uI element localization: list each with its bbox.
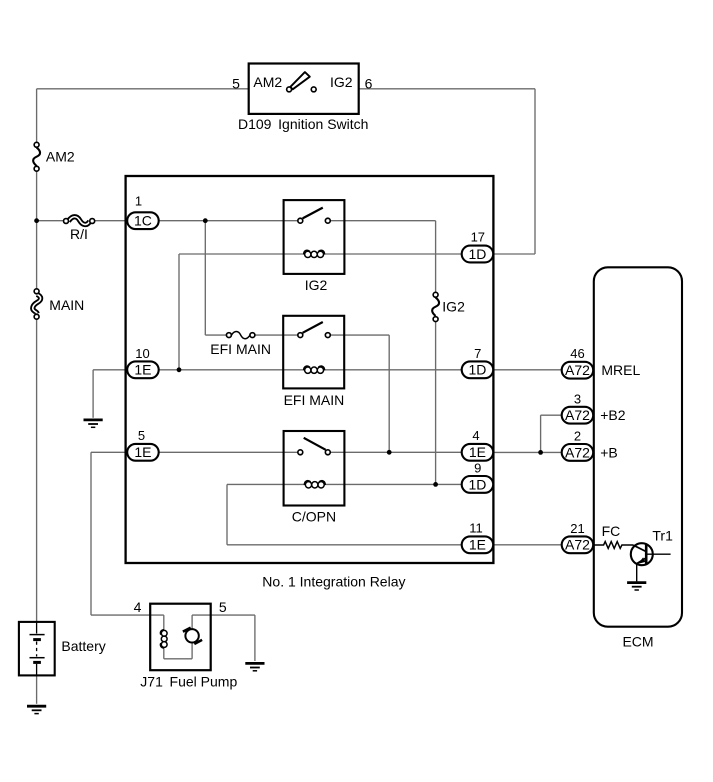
EFI MAIN relay switch (303, 322, 323, 333)
connector pin 10 (1E) (127, 361, 159, 378)
EFI MAIN relay coil (304, 366, 310, 370)
fuse AM2 (vertical) (33, 148, 40, 166)
svg-text:IG2: IG2 (305, 277, 328, 293)
switch contact AM2 (pin 5) (287, 87, 292, 92)
connector A72 pin 21 (562, 536, 594, 553)
fuse IG2 (vertical, inside relay) (432, 298, 439, 316)
fuel pump coil (160, 630, 164, 635)
svg-text:4: 4 (472, 428, 479, 443)
connector A72 pin 2 (562, 444, 594, 461)
svg-text:10: 10 (135, 346, 149, 361)
svg-text:46: 46 (570, 346, 584, 361)
svg-text:2: 2 (574, 429, 581, 444)
svg-text:AM2: AM2 (46, 149, 75, 165)
connector pin 11 (1E) (462, 536, 494, 553)
relay C/OPN box (284, 431, 345, 506)
node EFI-switch/1E junction (387, 450, 392, 455)
connector pin 17 (1D) (462, 246, 494, 263)
wire C/OPN coil left loop to pin11 1E (227, 483, 306, 485)
svg-text:C/OPN: C/OPN (292, 509, 336, 525)
connector pin 7 (1D) (462, 361, 494, 378)
svg-text:AM2: AM2 (253, 74, 282, 90)
switch lever (ignition key wedge) (290, 72, 310, 89)
wire fuel pump pin5 to ground (192, 614, 255, 616)
svg-text:+B2: +B2 (600, 407, 626, 423)
ground (pin 10 branch) (84, 418, 103, 421)
svg-text:5: 5 (138, 428, 145, 443)
wire IG2 coil run: pin17 line (179, 253, 304, 255)
switch contact IG2 (pin 6) (311, 87, 316, 92)
svg-text:7: 7 (474, 346, 481, 361)
svg-text:D109 Ignition Switch: D109 Ignition Switch (238, 116, 368, 132)
ECM box (594, 267, 682, 626)
wire C/OPN switch out to pin4 1E (330, 451, 461, 453)
wire ignition-switch IG2 to relay pin 17 (1D) (359, 88, 535, 90)
fuel pump J71 box (150, 604, 211, 671)
svg-text:IG2: IG2 (442, 299, 465, 315)
connector pin 9 (1D) (462, 476, 494, 493)
svg-text:A72: A72 (565, 444, 590, 460)
connector pin 4 (1E) (462, 444, 494, 461)
node +B/+B2 junction (538, 450, 543, 455)
C/OPN relay switch (304, 438, 326, 450)
wire pin10 1E to EFI MAIN coil to pin7 1D (159, 369, 305, 371)
svg-text:1E: 1E (469, 537, 486, 553)
svg-text:EFI MAIN: EFI MAIN (210, 341, 271, 357)
relay EFI MAIN box (283, 316, 344, 389)
svg-text:No. 1 Integration Relay: No. 1 Integration Relay (262, 573, 405, 589)
ground (battery) (27, 705, 46, 708)
svg-text:J71 Fuel Pump: J71 Fuel Pump (140, 674, 237, 690)
wire R/I fuse branch to 1C (37, 220, 64, 222)
wire pin7 1D to ECM MREL (493, 369, 562, 371)
wire C/OPN coil right to pin9 1D (324, 483, 462, 485)
IG2 relay coil (304, 250, 310, 254)
svg-text:11: 11 (469, 521, 483, 536)
svg-text:5: 5 (219, 599, 227, 615)
wire IG2 switch out to IG2 fuse vertical (330, 220, 435, 222)
svg-text:21: 21 (570, 521, 584, 536)
transistor Tr1 (631, 543, 653, 565)
battery cells (36, 622, 38, 634)
svg-text:1D: 1D (468, 362, 486, 378)
svg-text:1E: 1E (134, 444, 151, 460)
svg-text:1E: 1E (134, 362, 151, 378)
svg-text:MAIN: MAIN (49, 297, 84, 313)
svg-text:A72: A72 (565, 537, 590, 553)
svg-text:IG2: IG2 (330, 74, 353, 90)
svg-text:ECM: ECM (622, 634, 653, 650)
svg-text:5: 5 (232, 76, 240, 92)
wire pin4 1E to ECM +B / +B2 (493, 451, 562, 453)
relay box No.1 Integration Relay (126, 176, 494, 563)
wire pin5 1E branch to fuel pump (91, 451, 128, 453)
wire 1C to IG2 relay switch (159, 220, 298, 222)
svg-text:1D: 1D (468, 246, 486, 262)
fuel pump motor (185, 629, 198, 642)
node battery/R-I junction (34, 218, 39, 223)
ground (transistor emitter) (627, 581, 646, 584)
connector A72 pin 46 (562, 362, 594, 379)
ground (fuel pump) (245, 662, 264, 665)
svg-text:4: 4 (134, 599, 142, 615)
svg-text:+B: +B (600, 444, 618, 460)
wire 1C-junction down to EFI MAIN fuse (204, 221, 206, 335)
ignition switch D109 box (249, 64, 359, 114)
fusible link MAIN (vertical) (33, 294, 41, 313)
wire pin11 1E to ECM FC (493, 544, 562, 546)
wire battery negative to ground (36, 675, 38, 703)
fuse EFI MAIN (thin wavy) (231, 332, 250, 339)
svg-text:EFI MAIN: EFI MAIN (284, 392, 345, 408)
wire pin5 1E to C/OPN switch (159, 451, 298, 453)
connector pin 1 (1C) (127, 212, 159, 229)
svg-text:9: 9 (474, 460, 481, 475)
battery box (19, 622, 55, 676)
svg-text:1C: 1C (134, 213, 152, 229)
connector A72 pin 3 (562, 407, 594, 424)
wire EFI MAIN switch out down to 1E wire (330, 334, 389, 336)
svg-text:1E: 1E (469, 444, 486, 460)
svg-text:MREL: MREL (601, 362, 640, 378)
svg-text:A72: A72 (565, 362, 590, 378)
node 1C/EFI-fuse junction (203, 218, 208, 223)
resistor (FC base) (593, 542, 633, 549)
svg-text:Tr1: Tr1 (652, 527, 673, 543)
wire IG2 coil left down to 1E wire (178, 254, 180, 370)
fuel pump internal wiring (163, 615, 165, 630)
svg-text:3: 3 (574, 392, 581, 407)
svg-text:17: 17 (471, 230, 485, 245)
svg-text:FC: FC (602, 523, 621, 539)
node IG2-fuse/C-OPN-coil junction (433, 482, 438, 487)
node IG2-coil/1E junction (177, 367, 182, 372)
svg-text:6: 6 (365, 76, 373, 92)
svg-text:1D: 1D (468, 476, 486, 492)
svg-text:1: 1 (135, 194, 142, 209)
wire left main vertical AM2-to-battery (36, 172, 38, 289)
relay IG2 box (284, 200, 345, 274)
fusible link R/I (68, 217, 89, 225)
wire battery-to-ignition-switch top run (37, 88, 249, 90)
connector pin 5 (1E) (127, 444, 159, 461)
IG2 relay switch (303, 208, 323, 219)
wire pin10 1E ground branch (93, 369, 127, 371)
C/OPN relay coil (304, 481, 310, 485)
svg-text:A72: A72 (565, 407, 590, 423)
svg-text:R/I: R/I (70, 226, 88, 242)
svg-text:Battery: Battery (61, 638, 105, 654)
